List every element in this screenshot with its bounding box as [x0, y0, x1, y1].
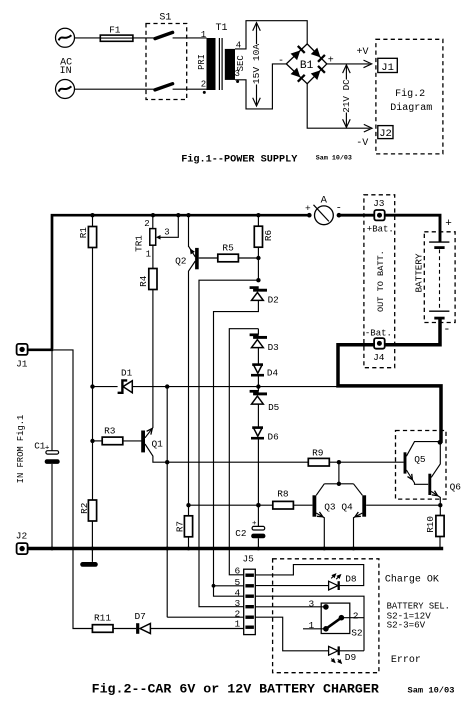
svg-text:4: 4	[234, 588, 240, 599]
svg-text:R11: R11	[94, 613, 111, 624]
svg-text:Q6: Q6	[450, 481, 462, 492]
svg-text:Q1: Q1	[151, 438, 163, 449]
svg-text:J1: J1	[16, 359, 28, 370]
svg-text:S1: S1	[159, 12, 171, 23]
svg-text:Q2: Q2	[175, 256, 187, 267]
svg-text:21V DC: 21V DC	[341, 79, 352, 113]
svg-text:J4: J4	[373, 352, 385, 363]
svg-text:BATTERY: BATTERY	[414, 253, 425, 292]
svg-text:1: 1	[201, 30, 206, 40]
svg-text:-: -	[443, 322, 450, 336]
svg-text:2: 2	[201, 79, 206, 89]
svg-text:R7: R7	[174, 521, 185, 532]
svg-text:3: 3	[308, 598, 314, 609]
svg-text:D2: D2	[268, 295, 279, 306]
svg-text:Q3 Q4: Q3 Q4	[324, 501, 353, 512]
svg-text:+: +	[252, 520, 257, 528]
svg-text:R10: R10	[425, 516, 436, 533]
svg-text:2: 2	[144, 219, 149, 229]
svg-text:R6: R6	[263, 230, 274, 241]
svg-text:-V: -V	[356, 138, 368, 149]
svg-text:-: -	[336, 202, 342, 214]
svg-text:+Bat.: +Bat.	[367, 225, 394, 235]
svg-text:+: +	[45, 445, 50, 453]
svg-text:2: 2	[353, 610, 359, 621]
svg-text:PRI: PRI	[197, 54, 207, 70]
svg-text:D1: D1	[121, 367, 133, 378]
svg-text:J1: J1	[381, 62, 394, 74]
svg-text:J5: J5	[242, 554, 254, 565]
svg-text:R2: R2	[79, 503, 90, 514]
svg-text:6: 6	[234, 566, 240, 577]
svg-text:Charge OK: Charge OK	[385, 573, 439, 585]
svg-text:-: -	[278, 56, 284, 67]
svg-text:B1: B1	[300, 60, 314, 72]
svg-text:+: +	[305, 203, 311, 214]
svg-text:3: 3	[164, 228, 169, 238]
svg-text:D3: D3	[268, 342, 279, 353]
svg-text:TR1: TR1	[134, 235, 145, 252]
svg-text:S2-3=6V: S2-3=6V	[387, 620, 426, 631]
svg-text:R4: R4	[138, 275, 149, 287]
svg-text:T1: T1	[215, 23, 227, 34]
svg-text:Error: Error	[391, 655, 421, 666]
svg-text:-Bat.: -Bat.	[365, 329, 392, 339]
svg-text:Fig.2: Fig.2	[395, 88, 425, 100]
svg-text:R9: R9	[312, 447, 324, 458]
svg-text:S2: S2	[351, 628, 363, 639]
svg-text:R3: R3	[104, 425, 116, 436]
svg-text:+V: +V	[356, 47, 368, 58]
svg-text:15V 10A: 15V 10A	[251, 44, 262, 85]
svg-text:R5: R5	[222, 242, 234, 253]
svg-text:Fig.1--POWER SUPPLY: Fig.1--POWER SUPPLY	[181, 153, 298, 165]
svg-text:D4: D4	[267, 368, 279, 379]
svg-text:Diagram: Diagram	[390, 102, 432, 114]
svg-text:F1: F1	[109, 25, 121, 36]
svg-text:IN FROM Fig.1: IN FROM Fig.1	[16, 415, 26, 484]
svg-text:5: 5	[234, 577, 240, 588]
svg-text:J2: J2	[16, 531, 28, 542]
svg-text:Sam 10/03: Sam 10/03	[408, 686, 455, 696]
svg-text:R1: R1	[78, 227, 89, 239]
svg-text:J2: J2	[379, 128, 392, 140]
svg-text:D5: D5	[268, 402, 279, 413]
svg-text:A: A	[321, 194, 328, 206]
svg-text:3: 3	[234, 598, 240, 609]
svg-text:R8: R8	[277, 488, 289, 499]
svg-text:J3: J3	[373, 198, 385, 209]
svg-text:SEC: SEC	[236, 55, 246, 72]
svg-text:1: 1	[146, 249, 151, 259]
svg-text:Q5: Q5	[414, 454, 426, 465]
svg-text:IN: IN	[60, 66, 72, 77]
svg-text:OUT TO BATT.: OUT TO BATT.	[376, 250, 386, 312]
svg-text:+: +	[328, 56, 334, 67]
svg-text:Fig.2--CAR 6V or 12V BATTERY C: Fig.2--CAR 6V or 12V BATTERY CHARGER	[92, 681, 379, 696]
svg-text:+: +	[445, 218, 452, 230]
svg-text:D9: D9	[345, 652, 357, 663]
svg-text:C2: C2	[235, 528, 246, 539]
svg-text:Sam 10/03: Sam 10/03	[316, 155, 352, 163]
svg-text:D7: D7	[134, 611, 145, 622]
svg-text:D8: D8	[345, 573, 357, 584]
svg-text:D6: D6	[268, 432, 279, 443]
svg-text:1: 1	[308, 620, 314, 631]
